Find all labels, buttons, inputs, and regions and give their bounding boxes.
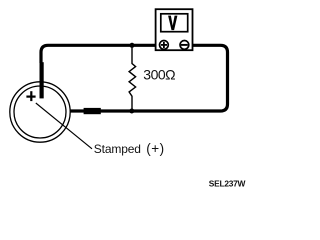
voltmeter V glyph xyxy=(168,16,177,31)
probe terminal bar on battery top xyxy=(40,62,44,98)
junction node bottom (resistor to bottom wire) xyxy=(129,109,134,114)
battery coin cell inner circle xyxy=(14,86,66,138)
svg-text:SEL237W: SEL237W xyxy=(209,178,246,188)
battery coin cell outer circle xyxy=(10,82,70,142)
leader line from plus mark to Stamped label xyxy=(36,103,92,149)
svg-text:300Ω: 300Ω xyxy=(143,67,175,83)
junction node top (resistor to top wire) xyxy=(130,43,135,48)
wire top-left from battery positive probe up and right to voltmeter + terminal xyxy=(41,45,160,63)
voltmeter positive terminal xyxy=(160,41,169,50)
plus mark inside battery xyxy=(26,91,35,101)
voltmeter display window xyxy=(161,14,188,32)
svg-text:Stamped: Stamped xyxy=(94,142,141,156)
voltmeter U1 outer case xyxy=(156,9,193,50)
resistor R 300 ohm zigzag xyxy=(129,45,136,111)
probe terminal bar on battery right wire xyxy=(84,108,101,114)
svg-text:(+): (+) xyxy=(146,141,165,156)
voltmeter negative terminal xyxy=(180,41,189,50)
wire from voltmeter - terminal right, down, and left along bottom to battery xyxy=(70,45,227,111)
